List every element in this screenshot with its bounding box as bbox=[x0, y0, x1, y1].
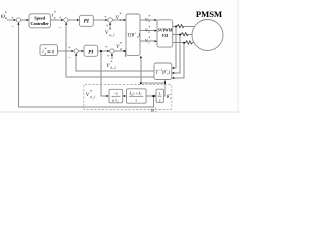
T block box bbox=[126, 14, 140, 55]
arrow Va into SVPWM bbox=[155, 19, 157, 21]
arrow into Speed Controller bbox=[27, 19, 29, 21]
label omega hat r bbox=[151, 108, 157, 113]
frame right bbox=[237, 0, 239, 112]
label T inverse bbox=[155, 68, 170, 76]
svg-text:+: + bbox=[107, 53, 110, 58]
wire block2 to node to block3 bbox=[146, 95, 156, 97]
Speed Controller box bbox=[29, 14, 50, 28]
svg-text:+: + bbox=[104, 14, 107, 19]
wire Vqf stub into S3 bbox=[109, 23, 111, 29]
svg-text:+: + bbox=[105, 44, 108, 49]
node dot tap c bbox=[183, 42, 185, 44]
wire S6 to T block bbox=[114, 50, 125, 52]
arrow into S3 bbox=[105, 19, 107, 21]
wire block3 to theta riser bbox=[164, 80, 166, 96]
wire S1 to Speed Controller bbox=[21, 19, 28, 21]
label V*d,f estimator input bbox=[86, 89, 96, 100]
arrow id up into S5 bbox=[75, 53, 77, 55]
SVPWM VSI box bbox=[157, 20, 173, 47]
wire Speed Controller to S2 bbox=[50, 19, 62, 21]
wire id feedback to S5 bbox=[76, 54, 154, 71]
PI2 box bbox=[84, 45, 98, 56]
wire Vdf stub into S6 bbox=[111, 54, 113, 59]
arrow into PI1 bbox=[77, 19, 79, 21]
estimator block1 bbox=[109, 89, 123, 103]
frame bottom bbox=[0, 111, 240, 113]
arrow into estimator block2 bbox=[124, 95, 126, 97]
svg-text:0: 0 bbox=[52, 49, 55, 55]
arrow into PI2 bbox=[82, 50, 84, 52]
wire phase a bbox=[173, 25, 178, 27]
svg-text:ˆ: ˆ bbox=[112, 96, 113, 100]
arrow theta up into Tinv block bbox=[164, 80, 166, 82]
arrow into S5 bbox=[72, 50, 74, 52]
wire iq feedback to S2 bbox=[66, 23, 154, 77]
label V*b bbox=[145, 26, 150, 34]
wire S2 to PI1 bbox=[68, 19, 78, 21]
svg-text:*: * bbox=[44, 47, 46, 52]
svg-text:d,_f: d,_f bbox=[110, 65, 116, 70]
wire PI2 to S6 bbox=[98, 50, 109, 52]
node dot theta branch at T riser bbox=[140, 82, 142, 84]
wire S3 to T block bbox=[112, 19, 125, 21]
wire Vd branch into estimator bbox=[101, 51, 108, 96]
wire theta branch to T block bbox=[141, 57, 165, 84]
wire stub below T lower input node bbox=[124, 52, 126, 57]
svg-text:Controller: Controller bbox=[31, 21, 50, 26]
svg-text:Speed: Speed bbox=[34, 15, 46, 20]
summing junction S2 bbox=[64, 18, 68, 22]
svg-text:d,_f: d,_f bbox=[90, 95, 96, 100]
arrow Vdf up into S6 bbox=[111, 53, 113, 55]
svg-text:*: * bbox=[120, 41, 122, 46]
svg-text:+: + bbox=[11, 15, 14, 20]
wire S5 to PI2 bbox=[78, 50, 83, 52]
svg-text:d: d bbox=[44, 52, 46, 56]
label i*d = 0 bbox=[42, 47, 54, 56]
node dot Vd branch bbox=[100, 50, 102, 52]
svg-text:+: + bbox=[68, 44, 71, 49]
winding zigzag phase b bbox=[181, 33, 188, 36]
arrow into T lower bbox=[124, 50, 126, 52]
label omega*m bbox=[1, 11, 8, 21]
PI1 box bbox=[79, 15, 93, 26]
wire omega feedback to S1 bbox=[18, 23, 153, 107]
winding zigzag phase c bbox=[186, 41, 193, 44]
arrow Vc into SVPWM bbox=[155, 40, 157, 42]
wire T to SVPWM Vc bbox=[140, 40, 156, 42]
estimator block3 bbox=[156, 89, 164, 102]
node dot omega branch bbox=[152, 95, 154, 97]
estimator block1 fraction bbox=[112, 91, 121, 103]
wire T to SVPWM Va bbox=[140, 19, 156, 21]
arrow ia into Tinv bbox=[172, 67, 174, 69]
wire current tap a bbox=[173, 26, 176, 68]
arrow into estimator block3 bbox=[154, 95, 156, 97]
label V*a bbox=[145, 15, 150, 23]
wire T to SVPWM Vb bbox=[140, 30, 156, 32]
arrow into S2 bbox=[61, 19, 63, 21]
label T(theta r) bbox=[127, 33, 140, 38]
svg-text:*: * bbox=[110, 60, 112, 65]
T inverse box bbox=[154, 63, 172, 80]
winding zigzag phase a bbox=[177, 25, 184, 28]
wire current tap b bbox=[173, 35, 180, 74]
arrow into estimator block1 bbox=[106, 95, 108, 97]
svg-text:+: + bbox=[59, 14, 62, 19]
svg-text:−: − bbox=[11, 26, 14, 31]
wire phase c bbox=[173, 42, 186, 44]
summing junction S5 bbox=[74, 49, 78, 53]
svg-text:): ) bbox=[167, 71, 170, 76]
summing junction S6 bbox=[110, 49, 114, 53]
label theta hat r bbox=[167, 95, 172, 100]
label V*d,f bbox=[106, 60, 116, 71]
label V*q,f bbox=[105, 27, 115, 38]
label V*c bbox=[145, 36, 150, 44]
svg-text:*: * bbox=[5, 11, 7, 16]
svg-text:1: 1 bbox=[159, 91, 161, 96]
i*d=0 box bbox=[40, 45, 58, 56]
svg-text:*: * bbox=[54, 10, 56, 15]
arrow into S1 bbox=[14, 19, 16, 21]
summing junction S1 bbox=[16, 18, 20, 22]
svg-text:): ) bbox=[137, 33, 140, 38]
wire omega* input bbox=[7, 19, 15, 21]
svg-text:d: d bbox=[120, 47, 122, 51]
estimator block3 fraction 1/s bbox=[158, 91, 162, 103]
svg-text:VSI: VSI bbox=[162, 33, 169, 38]
node dot tap a bbox=[175, 26, 177, 28]
wire block1 to block2 bbox=[123, 95, 126, 97]
svg-text:−: − bbox=[68, 56, 71, 61]
node dot theta branch bbox=[164, 82, 166, 84]
arrow Vb into SVPWM bbox=[155, 30, 157, 32]
svg-text:−1: −1 bbox=[114, 91, 118, 96]
dashed estimator box bbox=[84, 85, 172, 110]
arrow omega up into S1 bbox=[17, 22, 19, 24]
svg-text:*: * bbox=[90, 89, 92, 94]
arrow ib into Tinv bbox=[172, 72, 174, 74]
node dot tap b bbox=[179, 34, 181, 36]
svg-text:q: q bbox=[54, 16, 56, 20]
summing junction S3 bbox=[108, 18, 112, 22]
arrow iq up into S2 bbox=[65, 22, 67, 24]
svg-text:*: * bbox=[119, 12, 121, 17]
svg-text:−: − bbox=[58, 26, 61, 31]
node dot Vd branch at T input bbox=[125, 50, 127, 52]
arrow ic into Tinv bbox=[172, 77, 174, 79]
arrow into S6 bbox=[107, 50, 109, 52]
wire current tap c bbox=[173, 43, 184, 78]
arrow theta up into T block bbox=[140, 56, 142, 58]
label V*q bbox=[116, 12, 122, 22]
estimator block2 bbox=[127, 89, 147, 103]
svg-text:SVPWM: SVPWM bbox=[158, 28, 173, 33]
wire phase b bbox=[173, 34, 182, 36]
svg-text:q: q bbox=[120, 17, 122, 21]
arrow into T upper bbox=[124, 19, 126, 21]
wire PI1 to S3 bbox=[93, 19, 107, 21]
label V*d bbox=[116, 41, 122, 51]
PMSM motor circle bbox=[192, 20, 223, 51]
svg-text:*: * bbox=[109, 27, 111, 32]
label i*q bbox=[52, 10, 56, 20]
estimator block2 fraction bbox=[129, 91, 143, 102]
svg-text:PMSM: PMSM bbox=[196, 9, 222, 19]
arrow Vqf up into S3 bbox=[109, 22, 111, 24]
wire i*d box to S5 bbox=[58, 50, 74, 52]
svg-text:q,_f: q,_f bbox=[109, 33, 115, 38]
